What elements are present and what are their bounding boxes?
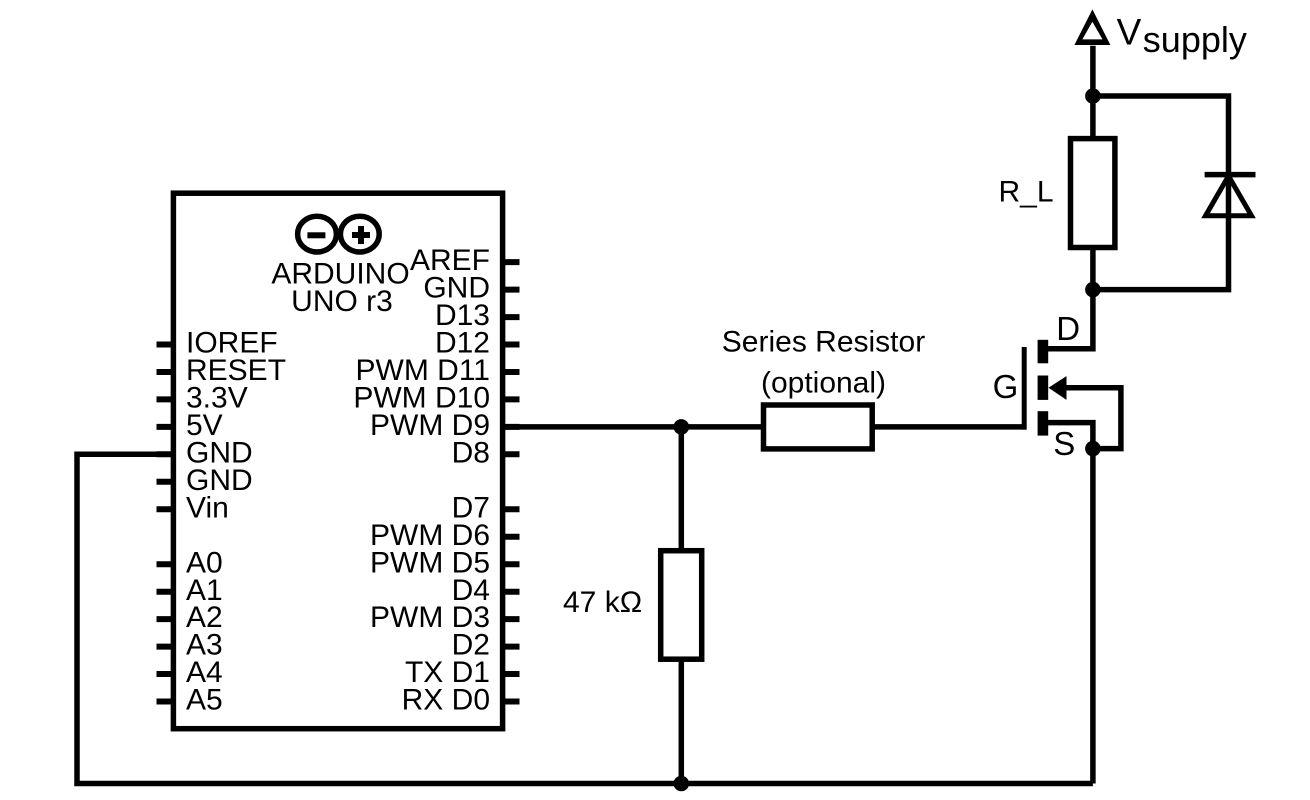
wire series resistor to gate (872, 424, 1026, 430)
node junction D9/47k (674, 419, 690, 435)
node junction 47k/ground (674, 776, 690, 792)
pin 3.3V (157, 382, 248, 415)
wire 47k resistor to ground bus (679, 659, 685, 784)
pin TX D1 (405, 656, 520, 689)
pin GND (left, wired) (157, 436, 253, 469)
pin Vin (157, 491, 229, 524)
wire supply node to diode branch (1093, 96, 1229, 172)
resistor R2 47k body (661, 551, 702, 660)
svg-text:D8: D8 (452, 436, 490, 469)
pin D2 (452, 629, 520, 662)
wire source lead (1048, 423, 1093, 449)
svg-text:Vin: Vin (186, 491, 229, 524)
pin A5 (157, 684, 223, 717)
pin A4 (157, 656, 223, 689)
pin D13 (435, 299, 520, 332)
svg-text:UNO r3: UNO r3 (291, 285, 393, 318)
pin D7 (452, 491, 520, 524)
pin GND (left, second) (157, 464, 253, 497)
pin PWM D3 (370, 601, 520, 634)
wire ground net: GND pin, left drop, bottom bus (77, 454, 1093, 783)
node drain junction (1085, 282, 1101, 298)
svg-text:47 kΩ: 47 kΩ (563, 586, 642, 619)
wire junction to 47k resistor (679, 427, 685, 551)
pin PWM D5 (370, 546, 520, 579)
wire drain lead (1048, 290, 1093, 349)
power symbol V_supply arrow (1074, 9, 1110, 45)
pin AREF (410, 244, 520, 277)
Arduino logo (298, 216, 380, 252)
pin RESET (157, 354, 287, 387)
svg-text:R_L: R_L (999, 176, 1054, 209)
svg-text:RX D0: RX D0 (402, 684, 490, 717)
svg-text:A5: A5 (186, 684, 223, 717)
transistor Q1 body arrow (1049, 376, 1067, 400)
wire supply arrow to R_L (1090, 46, 1096, 139)
node supply junction (1085, 88, 1101, 104)
node source junction (1085, 441, 1101, 457)
label V supply (1117, 11, 1247, 59)
wire source to ground bus (1090, 449, 1096, 784)
pin PWM D10 (353, 382, 519, 415)
transistor Q1 gate bar (1022, 347, 1027, 430)
pin 5V (157, 409, 223, 442)
svg-text:D: D (1056, 310, 1080, 347)
wire body to source hook (1065, 388, 1121, 449)
svg-text:Series Resistor: Series Resistor (722, 326, 925, 359)
diode D1 triangle (1206, 176, 1252, 216)
pin A2 (157, 601, 223, 634)
transistor Q1 channel segments (1038, 340, 1049, 436)
wire R_L to drain node (1090, 248, 1096, 290)
pin D12 (435, 327, 520, 360)
svg-text:G: G (993, 368, 1019, 405)
pin A1 (157, 574, 223, 607)
resistor R_L body (1071, 139, 1115, 248)
svg-text:V: V (1117, 11, 1142, 52)
svg-text:supply: supply (1143, 19, 1247, 60)
pin A0 (157, 546, 223, 579)
pin PWM D9 (370, 409, 520, 442)
pin RX D0 (402, 684, 520, 717)
pin PWM D11 (356, 354, 520, 387)
Arduino UNO U1 body (173, 193, 502, 729)
wire D9 to series resistor (505, 424, 763, 430)
diode D1 cathode bar (1205, 172, 1256, 178)
svg-text:S: S (1053, 425, 1075, 462)
pin PWM D6 (370, 519, 520, 552)
pin IOREF (157, 327, 278, 360)
wire diode to drain node (1093, 175, 1229, 290)
pin D8 (452, 436, 520, 469)
label ARDUINO UNO r3 (271, 258, 409, 318)
resistor R1 (series) body (764, 405, 873, 449)
pin D4 (452, 574, 520, 607)
svg-text:(optional): (optional) (761, 366, 886, 399)
pin GND (right) (423, 272, 519, 305)
pin A3 (157, 629, 223, 662)
